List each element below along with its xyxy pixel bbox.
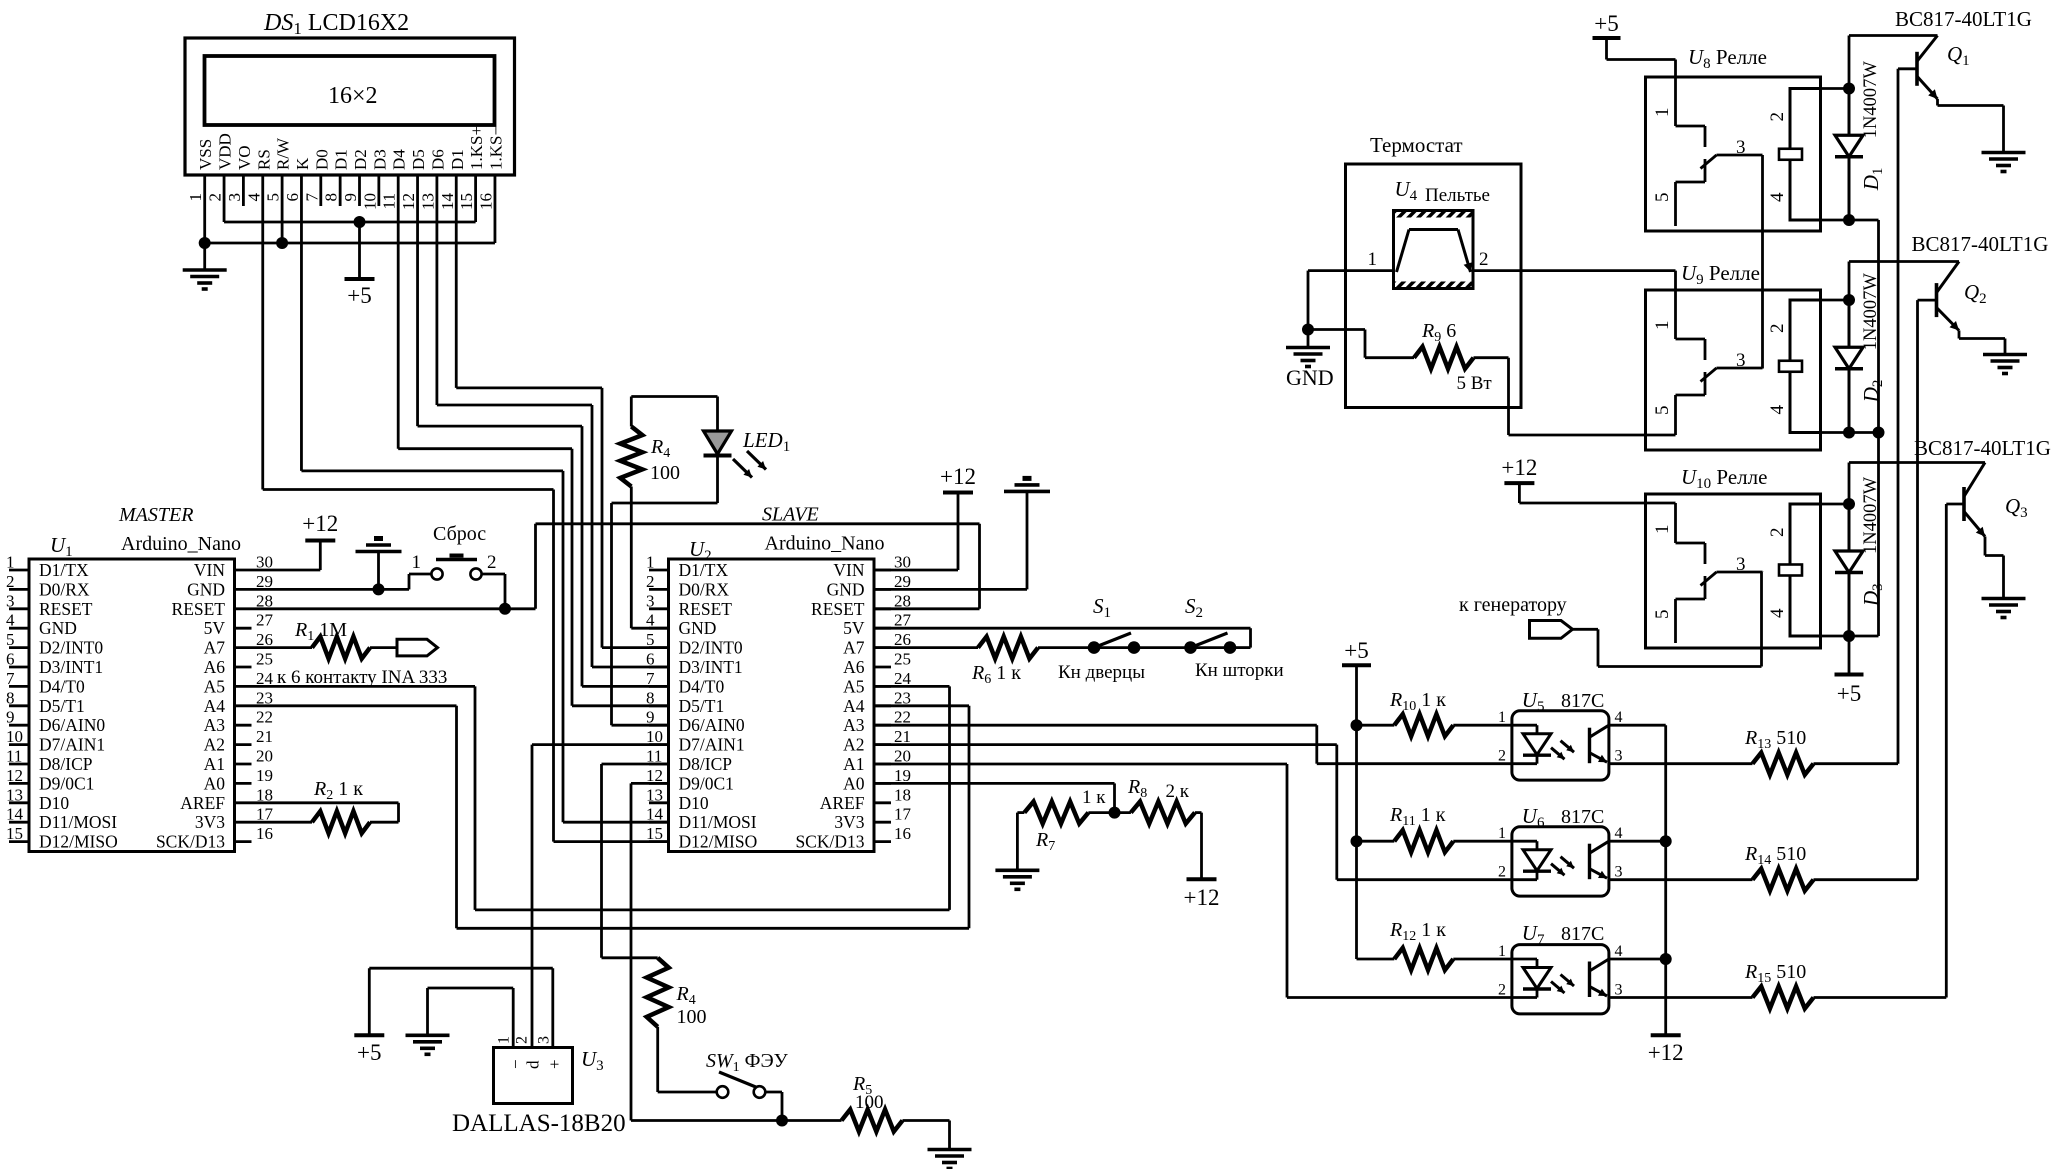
wire LCD D5 pin12 -> U2 D4/T0 (418, 175, 669, 686)
label U5 pin3 (1615, 748, 1623, 765)
svg-text:GND: GND (1286, 365, 1334, 390)
relay U8 pin3 common (1717, 155, 1763, 369)
svg-text:2: 2 (1498, 982, 1506, 999)
svg-text:5: 5 (264, 193, 283, 202)
wire collector Q1 (1849, 34, 1938, 37)
svg-text:D1/TX: D1/TX (39, 560, 89, 580)
wire LED1 cathode to U2 D6/AIN0 (612, 456, 718, 726)
wire collector riser D3 (1848, 463, 1851, 505)
wire U2 GND to ground (874, 491, 1027, 589)
svg-text:D9/0C1: D9/0C1 (679, 773, 734, 793)
button SB Sbros pin2 contact (470, 568, 481, 579)
wire U2 D9/0C1 to node (631, 783, 842, 1120)
resistor R8 (1131, 802, 1195, 824)
svg-text:D6/AIN0: D6/AIN0 (679, 715, 745, 735)
label R6 1 k (971, 662, 1021, 687)
junction ground bus pin1 (199, 237, 211, 249)
svg-text:2: 2 (6, 572, 15, 591)
relay U8 pin1 contact (1676, 60, 1706, 148)
junction R7/R8/A0 (1109, 807, 1121, 819)
wire R14 to Q2 base (1814, 300, 1918, 880)
svg-text:3: 3 (1615, 982, 1623, 999)
transistor Q1 base bar (1915, 52, 1919, 86)
label button pin 1 (412, 552, 422, 573)
svg-text:U8 Релле: U8 Релле (1688, 45, 1767, 72)
svg-text:11: 11 (6, 747, 22, 766)
label U8 Relle (1688, 45, 1767, 72)
wire base Q1 (1898, 67, 1917, 70)
svg-text:R2 1 к: R2 1 к (313, 778, 363, 803)
svg-text:D4/T0: D4/T0 (39, 676, 85, 696)
label U5 (1522, 688, 1545, 715)
wire button pin2 to RESET net (482, 574, 505, 609)
resistor R7 (1024, 802, 1088, 824)
wire R7 to node (1088, 811, 1114, 814)
label D2 (1859, 380, 1886, 404)
LCD pin numbers 1-16 (186, 193, 495, 211)
svg-text:A2: A2 (204, 735, 225, 755)
label U2 (689, 537, 712, 564)
label R2 1 k (313, 778, 363, 803)
junction SW1/R5/D9 (776, 1115, 788, 1127)
resistor R14 (1753, 869, 1814, 891)
svg-text:3: 3 (1615, 748, 1623, 765)
label 100 (R5) (855, 1092, 884, 1113)
svg-text:D2/INT0: D2/INT0 (679, 638, 743, 658)
svg-text:2: 2 (646, 572, 655, 591)
+12 supply (U2 VIN) (940, 464, 976, 493)
wire LCD D1 pin14 -> U2 D2/INT0 (456, 175, 668, 648)
svg-text:VDD: VDD (216, 133, 235, 170)
ground (R5) (928, 1150, 972, 1169)
svg-text:D5: D5 (409, 149, 428, 170)
ground (R7) (995, 870, 1039, 889)
svg-text:+5: +5 (1594, 11, 1618, 36)
switch S2 contacts (1184, 641, 1236, 654)
+12 supply (U1 VIN) (302, 511, 338, 541)
svg-text:VSS: VSS (196, 139, 215, 170)
label 100 (R4 LED) (650, 462, 680, 484)
wire R4 top to LED top (631, 397, 717, 432)
connector flag k generatoru (1530, 621, 1573, 639)
svg-text:100: 100 (677, 1006, 707, 1028)
U2 SLAVE Arduino_Nano body (669, 559, 875, 852)
transistor Q1 emitter (1917, 76, 1938, 99)
svg-text:12: 12 (6, 766, 23, 785)
sensor U3 body (494, 1048, 573, 1104)
optocoupler U6 light arrows (1551, 857, 1574, 876)
resistor R5 (842, 1110, 903, 1132)
label R5 (852, 1073, 872, 1098)
svg-text:MASTER: MASTER (118, 504, 193, 526)
svg-text:5V: 5V (204, 618, 226, 638)
wire U6 pin3 to R14 (1609, 878, 1753, 881)
wire peltier pin1 to GND (1308, 271, 1394, 330)
svg-text:2: 2 (514, 1036, 531, 1044)
label button pin 2 (487, 552, 497, 573)
U3 polarity labels (506, 1059, 564, 1069)
wire emitter Q2 to ground (1959, 331, 2005, 355)
svg-text:16: 16 (894, 824, 911, 843)
relay U8 body (1646, 77, 1821, 231)
switch SW1 lever (719, 1072, 757, 1088)
svg-text:к генератору: к генератору (1459, 594, 1567, 616)
junction node A D3 (1843, 498, 1855, 510)
label SLAVE (762, 504, 819, 526)
svg-text:D8/ICP: D8/ICP (679, 754, 733, 774)
svg-text:D4/T0: D4/T0 (679, 676, 725, 696)
svg-text:2: 2 (1767, 112, 1788, 122)
transistor Q1 collector (1917, 36, 1938, 62)
label U8 pin2 (1767, 112, 1788, 122)
label k 6 kontaktu INA 333 (277, 667, 447, 688)
wire GND node to R9 (1308, 330, 1414, 358)
svg-text:GND: GND (39, 618, 77, 638)
svg-text:A5: A5 (843, 676, 865, 696)
ground (Q1) (1982, 153, 2026, 172)
wire LCD D6 pin13 -> U2 D3/INT1 (437, 175, 669, 667)
label Q2 (1964, 280, 1987, 307)
svg-text:19: 19 (256, 766, 273, 785)
svg-text:100: 100 (855, 1092, 884, 1113)
label 1 k (R7) (1082, 787, 1106, 808)
svg-text:5: 5 (6, 630, 15, 649)
junction node A D2 (1843, 294, 1855, 306)
svg-text:+12: +12 (1184, 885, 1220, 910)
wire R10 lead (1357, 724, 1395, 727)
svg-text:D5/T1: D5/T1 (679, 696, 725, 716)
optocoupler U5 body (1512, 711, 1609, 780)
svg-text:SLAVE: SLAVE (762, 504, 819, 526)
wire U2 5V to S2 (874, 628, 1251, 647)
svg-text:5 Вт: 5 Вт (1457, 373, 1493, 394)
svg-text:2 к: 2 к (1166, 781, 1190, 802)
transistor Q3 collector (1964, 463, 1985, 497)
+5 supply (LCD) (345, 279, 375, 308)
svg-text:27: 27 (256, 611, 274, 630)
svg-text:R/W: R/W (274, 137, 293, 170)
svg-text:+12: +12 (302, 511, 338, 536)
svg-text:R15 510: R15 510 (1744, 961, 1806, 986)
label DALLAS-18B20 (452, 1110, 626, 1137)
wire LCD K pin6 -> U2 D11/MOSI (301, 175, 668, 822)
resistor R6 (978, 637, 1038, 659)
svg-text:3V3: 3V3 (195, 812, 225, 832)
svg-text:1: 1 (1368, 249, 1378, 270)
svg-text:4: 4 (1767, 608, 1788, 618)
svg-text:RS: RS (254, 149, 273, 170)
wire R6 to S1 (1038, 646, 1094, 649)
label 1N4007W (D3) (1861, 476, 1881, 554)
label 817C (U5) (1561, 690, 1604, 712)
+12 supply (R8) (1184, 879, 1220, 910)
label Kn dvertsy (1058, 662, 1145, 683)
svg-text:к 6 контакту INA 333: к 6 контакту INA 333 (277, 667, 447, 688)
label R15 510 (1744, 961, 1806, 986)
wire opto pin4 bus (1609, 725, 1666, 1035)
svg-text:VIN: VIN (833, 560, 864, 580)
svg-text:15: 15 (457, 193, 476, 210)
label R8 (1127, 776, 1147, 801)
svg-text:D10: D10 (679, 793, 709, 813)
transistor Q3 base bar (1962, 487, 1966, 521)
label U7 pin1 (1498, 943, 1506, 960)
wire U1 VIN to +12 (252, 541, 321, 571)
wire U2 GND pin4 to R4 (631, 487, 668, 629)
optocoupler U6 body (1512, 827, 1609, 896)
relay U8 pin5 contact (1676, 159, 1706, 226)
svg-text:3V3: 3V3 (834, 812, 864, 832)
LCD module DS1 outer box (185, 38, 515, 175)
LCD display area 16x2 (205, 56, 495, 125)
ground GND (thermostat) (1286, 330, 1330, 367)
relay U9 coil core (1779, 361, 1802, 372)
wire node to R8 (1115, 811, 1131, 814)
optocoupler U5 LED (1512, 725, 1551, 764)
svg-text:10: 10 (6, 727, 23, 746)
wire U8 coil pin4 to node (1821, 219, 1850, 222)
relay U10 pin1 contact (1676, 503, 1706, 564)
svg-text:4: 4 (1615, 943, 1623, 960)
junction R10 tap (1351, 719, 1363, 731)
svg-text:+5: +5 (347, 283, 371, 308)
svg-text:A1: A1 (204, 754, 225, 774)
label U5 pin2 (1498, 748, 1506, 765)
svg-text:K: K (293, 157, 312, 170)
junction node B D1 (1843, 214, 1855, 226)
relay U9 pin5 contact (1676, 372, 1706, 435)
svg-text:GND: GND (827, 579, 865, 599)
wire base Q3 (1946, 503, 1964, 506)
label R1 1M (294, 619, 347, 644)
wire U1 RESET to U2 RESET (252, 524, 980, 609)
optocoupler U5 phototransistor (1590, 725, 1609, 763)
svg-text:A1: A1 (843, 754, 864, 774)
wire +5 stem (358, 222, 361, 279)
svg-text:D0: D0 (312, 149, 331, 170)
wire S1 to S2 (1134, 646, 1191, 649)
svg-text:3: 3 (1736, 137, 1746, 158)
svg-text:RESET: RESET (39, 599, 93, 619)
svg-text:5: 5 (1652, 610, 1673, 620)
svg-text:4: 4 (1615, 825, 1623, 842)
U1 MASTER Arduino_Nano pin names (39, 560, 225, 852)
svg-text:18: 18 (894, 785, 911, 804)
wire U2 A2 to U6 pin2 (874, 745, 1512, 880)
svg-text:2: 2 (487, 552, 497, 573)
junction U1 GND / ground symbol (373, 583, 385, 595)
relay U10 body (1646, 494, 1821, 648)
svg-text:4: 4 (1767, 405, 1788, 415)
power ground (U2 GND) (1004, 478, 1050, 491)
switch S2 lever (1191, 633, 1228, 648)
svg-text:R1 1M: R1 1M (294, 619, 347, 644)
label BC817-40LT1G (Q2) (1912, 232, 2049, 256)
button SB Sbros actuator (436, 554, 477, 560)
junction RESET net (499, 603, 511, 615)
svg-text:1: 1 (1652, 321, 1673, 331)
relay U9 body (1646, 290, 1821, 450)
svg-text:13: 13 (646, 785, 663, 804)
label U6 pin3 (1615, 864, 1623, 881)
junction node B D2 (1843, 427, 1855, 439)
+12 supply (opto outputs) (1648, 1035, 1684, 1065)
svg-text:2: 2 (1767, 324, 1788, 334)
svg-text:−: − (506, 1059, 525, 1069)
svg-text:11: 11 (380, 193, 399, 209)
relay U9 pin3 common (1717, 367, 1763, 370)
label U9 pin3 (1736, 350, 1746, 371)
svg-text:14: 14 (438, 193, 457, 211)
label U1 (50, 533, 73, 560)
wire U2 A1 to U7 pin2 (874, 764, 1512, 998)
wire U7 pin3 to R15 (1609, 996, 1753, 999)
resistor R15 (1753, 987, 1814, 1009)
wire GND row up to button pin1 (409, 574, 431, 589)
thermostat box (1346, 164, 1522, 408)
svg-text:D10: D10 (39, 793, 69, 813)
svg-text:A4: A4 (204, 696, 226, 716)
svg-text:1: 1 (1498, 943, 1506, 960)
svg-text:16: 16 (476, 193, 495, 210)
transistor Q2 base bar (1935, 283, 1939, 317)
wire +5 riser (1357, 665, 1395, 959)
diode D3 (1835, 504, 1863, 636)
wire U2 A3 to U5 pin2 (874, 725, 1512, 764)
label R10 1 k (1389, 689, 1446, 714)
switch SW1 contact 1 (717, 1086, 729, 1098)
diode D1 (1835, 89, 1863, 221)
relay U9 pin1 contact (1676, 271, 1706, 360)
svg-text:5: 5 (1652, 406, 1673, 416)
LCD unconnected pin stubs 3,7,8,9,10 (243, 175, 378, 206)
wire emitter Q1 to ground (1938, 99, 2004, 153)
svg-text:817C: 817C (1561, 923, 1604, 945)
wire U10 coil pin2 to node (1821, 503, 1850, 506)
+5 supply (opto inputs) (1342, 638, 1371, 665)
svg-text:R14 510: R14 510 (1744, 843, 1806, 868)
svg-text:Сброс: Сброс (433, 523, 486, 545)
svg-text:2: 2 (1498, 864, 1506, 881)
svg-text:D7/AIN1: D7/AIN1 (39, 735, 105, 755)
svg-text:12: 12 (399, 193, 418, 210)
wire U2 D8/ICP to R4 bottom (602, 764, 669, 958)
label peltier pin 2 (1479, 249, 1489, 270)
svg-text:6: 6 (283, 193, 302, 202)
svg-text:R11 1 к: R11 1 к (1389, 804, 1446, 829)
label 817C (U6) (1561, 806, 1604, 828)
label U8 pin4 (1767, 192, 1788, 202)
svg-text:3: 3 (225, 193, 244, 202)
svg-text:D1: D1 (448, 149, 467, 170)
U1 MASTER Arduino_Nano right pins 30-16 (235, 553, 274, 844)
svg-text:+12: +12 (1501, 455, 1537, 480)
wire base Q2 (1918, 299, 1937, 302)
label U7 (1522, 921, 1545, 948)
resistor R10 (1394, 714, 1453, 736)
connector flag to INA 333 (397, 639, 438, 656)
junction U7 pin4 (1660, 953, 1672, 965)
label U10 pin1 (1652, 525, 1673, 535)
resistor R2 (312, 811, 370, 833)
wire R7 left to ground (1017, 813, 1024, 871)
ground to U3 pin1 (406, 988, 514, 1054)
junction GND node (1302, 324, 1314, 336)
label S2 (1185, 594, 1203, 621)
resistor R11 (1394, 830, 1453, 852)
wire U1 AREF to R2 (252, 803, 399, 822)
wire ground stem (203, 243, 206, 270)
wire LCD pin16 to ground bus (494, 175, 497, 243)
wire U10 pin3 to generator flag (1573, 572, 1762, 667)
wire LCD pin1 VSS to ground bus (203, 175, 206, 243)
label 1N4007W (D1) (1861, 61, 1881, 139)
optocoupler U6 LED (1512, 841, 1551, 880)
wire peltier pin2 to U9 pin1 (1473, 269, 1676, 272)
label R12 1 k (1389, 919, 1446, 944)
wire LCD D4 pin11 -> U2 D5/T1 (398, 175, 668, 706)
svg-text:13: 13 (418, 193, 437, 210)
svg-text:17: 17 (894, 805, 912, 824)
peltier U4 body (1394, 211, 1474, 289)
svg-text:D7/AIN1: D7/AIN1 (679, 735, 745, 755)
svg-text:817C: 817C (1561, 690, 1604, 712)
svg-text:2: 2 (1479, 249, 1489, 270)
label U7 pin4 (1615, 943, 1623, 960)
svg-text:1: 1 (1498, 825, 1506, 842)
label Peltye (1425, 185, 1490, 206)
label U10 pin2 (1767, 528, 1788, 538)
label U9 Relle (1681, 261, 1760, 288)
label U6 pin4 (1615, 825, 1623, 842)
svg-text:VIN: VIN (194, 560, 225, 580)
relay U8 coil core (1779, 149, 1802, 160)
svg-text:+5: +5 (357, 1040, 381, 1065)
relay U9 coil (1790, 300, 1821, 433)
label U4 (1395, 177, 1418, 204)
svg-text:D2/INT0: D2/INT0 (39, 638, 103, 658)
label 817C (U7) (1561, 923, 1604, 945)
svg-text:D12/MISO: D12/MISO (39, 832, 118, 852)
label peltier pin 1 (1368, 249, 1378, 270)
label U6 pin1 (1498, 825, 1506, 842)
svg-text:1.KS+: 1.KS+ (467, 126, 486, 170)
label BC817-40LT1G (Q3) (1914, 436, 2051, 460)
junction +5 bus tap (354, 216, 366, 228)
power ground (U1 GND) (356, 539, 402, 552)
ground (LCD) (183, 270, 227, 289)
peltier internal element (1397, 230, 1473, 273)
svg-text:2: 2 (1498, 748, 1506, 765)
wire U2 D7/AIN1 to U3 pin2 (532, 745, 669, 1048)
wire SW1 to node (765, 1092, 782, 1121)
optocoupler U7 light arrows (1551, 975, 1574, 994)
label SW1 FEU (706, 1050, 789, 1075)
junction R11 tap (1351, 835, 1363, 847)
label Q1 (1947, 42, 1970, 69)
wire R11 to U6 pin1 (1453, 840, 1512, 843)
svg-text:D1: D1 (332, 149, 351, 170)
svg-text:1: 1 (496, 1036, 513, 1044)
LCD pin names VSS..1.KS- (196, 126, 505, 170)
button SB Sbros pin1 contact (431, 568, 442, 579)
wire R9 to U9 pin5 (1474, 358, 1676, 435)
svg-text:BC817-40LT1G: BC817-40LT1G (1895, 7, 2032, 31)
svg-text:3: 3 (6, 591, 15, 610)
label Termostat (1370, 133, 1463, 157)
svg-text:1.KS−: 1.KS− (486, 126, 505, 170)
svg-text:4: 4 (1767, 192, 1788, 202)
